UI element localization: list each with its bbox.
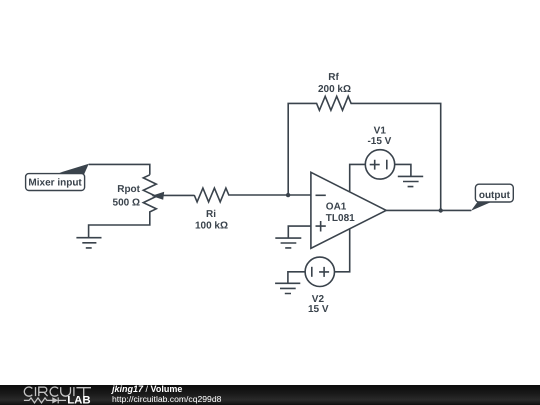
- svg-text:Mixer input: Mixer input: [28, 177, 82, 188]
- svg-text:OA1: OA1: [326, 202, 347, 213]
- svg-text:V1: V1: [374, 125, 387, 136]
- svg-text:Rpot: Rpot: [117, 184, 140, 195]
- svg-text:TL081: TL081: [326, 213, 355, 224]
- svg-text:100 kΩ: 100 kΩ: [195, 220, 228, 231]
- svg-text:200 kΩ: 200 kΩ: [318, 84, 351, 95]
- svg-text:Ri: Ri: [206, 209, 216, 220]
- svg-text:500 Ω: 500 Ω: [113, 198, 140, 209]
- svg-text:-15 V: -15 V: [367, 136, 391, 147]
- svg-text:15 V: 15 V: [308, 304, 329, 315]
- svg-text:Rf: Rf: [328, 72, 339, 83]
- svg-text:output: output: [479, 190, 511, 201]
